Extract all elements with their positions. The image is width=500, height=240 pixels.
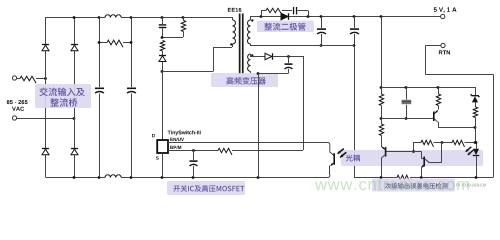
wire drain to transformer primary [162, 47, 232, 72]
bypass capacitor C8 [190, 149, 198, 177]
label pin D [152, 134, 155, 137]
wire feedback top rail [381, 86, 475, 89]
node drain junction [161, 70, 164, 73]
bridge diode D4 [71, 149, 78, 155]
series resistor R3 [160, 41, 164, 52]
output terminal 5V [434, 7, 457, 18]
top DC bus wire [46, 17, 233, 19]
AC input terminal L [12, 76, 16, 80]
transformer T1 bias winding [248, 54, 251, 73]
transformer T1 EE16 label [228, 8, 242, 12]
IC U1 TinySwitch-III [157, 140, 168, 153]
snubber capacitor C4 [293, 7, 309, 17]
label box optocoupler [341, 150, 483, 166]
wire terminal N to bridge [17, 117, 76, 120]
wire base line [381, 118, 434, 120]
watermark [315, 178, 469, 190]
resistor R6 [436, 87, 440, 110]
label box switching IC and HV MOSFET [167, 181, 245, 195]
wire source to bus [162, 153, 164, 177]
optocoupler U2 LED [473, 141, 479, 177]
bridge diode D3 [42, 149, 49, 155]
node bottom bus junctions [73, 176, 260, 179]
wire bias to BPM [303, 56, 305, 150]
bias capacitor C7 [257, 56, 293, 75]
bottom DC bus wire [46, 175, 330, 178]
wire Q1 collector [438, 126, 476, 129]
snubber resistor R4 [261, 8, 292, 16]
bulk capacitor C2 [127, 17, 136, 177]
output capacitor C6 [350, 17, 359, 47]
wire secondary bottom return [354, 175, 494, 182]
resistor R8 [414, 140, 444, 147]
capacitor C9 [402, 87, 412, 120]
label box high frequency transformer [211, 73, 278, 87]
optocoupler U2 phototransistor [330, 152, 335, 175]
optocoupler light arrows [338, 149, 347, 158]
transformer T1 core [239, 14, 244, 75]
clamp bottom wire [161, 36, 183, 39]
LED light arrows [466, 147, 474, 155]
clamp resistor R2 [181, 16, 185, 37]
resistor R7 [473, 107, 477, 144]
filter choke L2 [105, 175, 121, 178]
transformer T1 secondary winding [248, 17, 251, 46]
label 85-265 VAC [7, 100, 28, 111]
label box AC input and rectifier bridge [35, 84, 91, 108]
node primary polarity dot [230, 43, 232, 45]
label TinySwitch-III [168, 130, 201, 135]
wire R8 corner [412, 142, 415, 153]
wire Q3 collector [430, 142, 442, 163]
resistor R9 [442, 140, 475, 147]
wire drain line [162, 72, 164, 141]
wire secondary return down [354, 46, 356, 178]
RTN terminal [439, 43, 450, 54]
bulk capacitor C1 [95, 17, 104, 177]
label box secondary feedback [372, 179, 455, 192]
wire 5V feed down [380, 17, 383, 89]
bridge diode D2 [71, 45, 78, 51]
wire secondary return [250, 45, 354, 47]
wire EN/UV line [168, 138, 330, 152]
label part number [456, 184, 486, 187]
resistor R10 [379, 118, 383, 146]
transistor Q3 [414, 152, 430, 178]
output rectifier diode D6 [250, 13, 441, 20]
label pin S [156, 156, 159, 159]
damping resistor R1 [98, 40, 133, 47]
filter choke L1 [105, 15, 121, 18]
transistor Q1 [434, 110, 439, 127]
node bias polarity dot [251, 54, 253, 56]
node bias junction [287, 55, 290, 58]
node secondary polarity dot [251, 19, 253, 21]
wire BP/M line [168, 146, 303, 155]
wire RTN routing [426, 46, 494, 178]
bridge right leg wire [74, 17, 76, 177]
resistor R5 [379, 87, 383, 120]
node fuse-bridge junction [44, 77, 47, 80]
wire bias return [258, 73, 260, 177]
bridge diode D1 [42, 45, 49, 51]
fuse RF1 [17, 76, 46, 83]
transistor Q2 [381, 146, 385, 177]
node bottom return junctions [380, 176, 478, 179]
wire Q2 base [386, 151, 414, 153]
output capacitor C5 [317, 17, 326, 47]
zener diode Z1 [471, 87, 480, 107]
bias rectifier diode D7 [250, 53, 303, 60]
node output rail junctions [260, 15, 383, 18]
AC input terminal N [12, 116, 16, 120]
transformer T1 primary winding [233, 17, 236, 47]
node top bus junctions [73, 16, 133, 19]
clamp capacitor C3 [159, 16, 167, 37]
bridge left leg wire [45, 17, 47, 177]
label box rectifier diode [257, 21, 314, 33]
blocking diode D5 [159, 51, 166, 72]
